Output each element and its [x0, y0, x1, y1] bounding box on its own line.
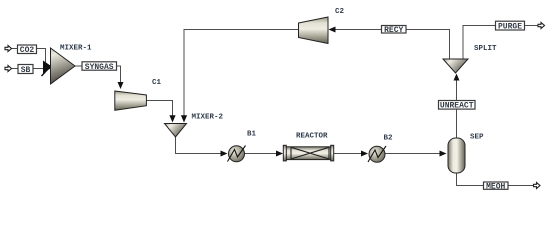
svg-text:CO2: CO2	[20, 46, 35, 55]
svg-text:B2: B2	[384, 135, 394, 143]
svg-text:SB: SB	[21, 66, 31, 75]
svg-text:RECY: RECY	[384, 26, 403, 35]
svg-text:SYNGAS: SYNGAS	[85, 63, 114, 72]
svg-text:REACTOR: REACTOR	[296, 133, 328, 141]
svg-text:SPLIT: SPLIT	[474, 45, 497, 53]
svg-text:PURGE: PURGE	[498, 23, 522, 32]
svg-text:UNREACT: UNREACT	[440, 102, 474, 111]
svg-text:C2: C2	[335, 8, 345, 16]
svg-text:C1: C1	[152, 79, 162, 87]
svg-text:MIXER-1: MIXER-1	[60, 45, 92, 53]
svg-text:MIXER-2: MIXER-2	[192, 114, 224, 122]
svg-text:MEOH: MEOH	[486, 183, 505, 192]
svg-text:SEP: SEP	[470, 134, 484, 142]
svg-text:B1: B1	[247, 131, 257, 139]
